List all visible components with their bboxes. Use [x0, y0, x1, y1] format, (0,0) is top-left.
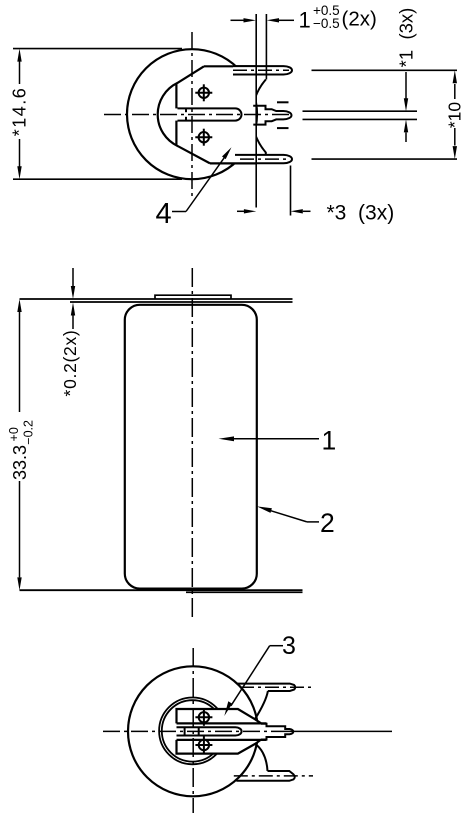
horizontal centerline (top view)	[104, 114, 291, 116]
plate bottom edge	[210, 162, 256, 164]
middle pin with trumpet base	[253, 106, 291, 125]
hole upper with crosshair	[195, 84, 212, 101]
cell rim inner circle	[162, 700, 223, 761]
leader line for label 4	[172, 147, 232, 211]
upper transition arc	[255, 691, 268, 719]
dim *14.6 line with arrows	[17, 49, 21, 180]
hole lower with crosshair	[195, 129, 212, 146]
cell body (rounded rectangle)	[125, 305, 257, 589]
dim *14.6 extension line top	[13, 48, 182, 50]
horizontal centerline solid tail	[288, 730, 392, 732]
vertical centerline (top view)	[191, 32, 193, 200]
pin bend tick 2	[198, 727, 200, 736]
svg-text:*1 (3x): *1 (3x)	[396, 8, 417, 68]
dim *10 line with arrows	[453, 70, 457, 159]
slot bend tick top	[185, 108, 187, 112]
plate left edge upper segment	[175, 84, 177, 109]
bracket arc right of plate	[252, 80, 266, 155]
bottom pin (stadium)	[235, 155, 292, 163]
dim *3: extension line from pin tip	[290, 166, 292, 216]
cell rim outer circle	[159, 698, 226, 765]
svg-text:(2x): (2x)	[342, 8, 377, 31]
dim *1 arrows	[404, 72, 408, 142]
top lid line long	[20, 298, 293, 300]
hole upper with crosshair (bottom view)	[195, 709, 212, 726]
holder circle (bottom view)	[128, 666, 258, 796]
bottom pin (bottom view)	[236, 771, 294, 781]
pin bend tick 1	[184, 727, 186, 736]
svg-text:*10: *10	[445, 102, 464, 129]
dim *1 extension line bottom	[303, 118, 418, 120]
dim *10 extension line bottom	[312, 158, 458, 160]
svg-text:*3 (3x): *3 (3x)	[327, 202, 395, 225]
svg-text:*14.6: *14.6	[10, 87, 30, 137]
top pin (stadium)	[233, 66, 292, 74]
vertical centerline (bottom view)	[192, 648, 194, 813]
clip inner arc with diagonals	[158, 66, 210, 163]
svg-text:1: 1	[299, 7, 311, 32]
bottom pin centerline (bottom view)	[234, 775, 313, 777]
top lid line second	[70, 301, 293, 303]
hidden bend mark upper	[277, 101, 289, 103]
plate and crown (white fill)	[177, 709, 294, 754]
plate left edge lower segment	[175, 121, 177, 145]
slot top edge	[177, 722, 267, 724]
leader line for label 2	[257, 506, 319, 522]
crown nose	[261, 724, 293, 740]
leader line for label 1	[219, 436, 320, 441]
plate/crown outline	[177, 709, 262, 754]
svg-text:−0.5: −0.5	[313, 16, 340, 31]
svg-text:4: 4	[156, 198, 172, 230]
slot stadium in plate	[178, 108, 242, 120]
lower transition arc	[255, 744, 268, 771]
plate top edge	[204, 65, 256, 67]
dim *14.6 extension line bottom	[13, 178, 182, 180]
svg-text:*0.2(2x): *0.2(2x)	[60, 330, 80, 397]
dim *3 arrows	[237, 209, 311, 213]
extension line A (plate right edge)	[255, 14, 257, 208]
top pin (bottom view)	[237, 684, 295, 691]
slot bottom edge	[177, 739, 267, 741]
bottom pin centerline	[240, 158, 289, 160]
hidden bend mark lower	[277, 127, 289, 129]
cell circle (top view)	[127, 49, 257, 179]
dim 1(2x): left arrow	[231, 18, 295, 22]
slot bend tick bottom	[185, 117, 187, 121]
plate face (white fill)	[176, 66, 256, 163]
svg-text:1: 1	[322, 425, 337, 455]
extension line B (pin bend)	[265, 14, 267, 80]
bottom lid line second	[186, 591, 303, 593]
top pin centerline (bottom view)	[240, 686, 313, 688]
svg-text:33.3 +0−0.2: 33.3 +0−0.2	[7, 420, 36, 480]
middle pin (bottom view)	[177, 727, 242, 735]
dim 33.3 line with arrows	[17, 299, 21, 590]
top pin centerline	[233, 69, 289, 71]
svg-text:3: 3	[282, 632, 296, 660]
dim *1 extension line top	[303, 110, 418, 112]
hole lower with crosshair (bottom view)	[195, 737, 212, 754]
bottom lid line long	[20, 589, 303, 591]
dim 0.2 arrows	[71, 268, 75, 329]
horizontal centerline (bottom view)	[103, 730, 288, 732]
positive lid bump	[155, 295, 231, 299]
svg-text:2: 2	[320, 508, 335, 538]
dim *10 extension line top	[312, 69, 458, 71]
vertical centerline (front view)	[191, 268, 193, 617]
leader line for label 3	[224, 646, 283, 716]
